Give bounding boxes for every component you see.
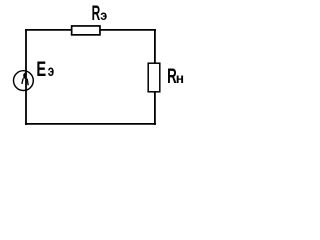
resistor R1 label "R" <box>92 2 101 25</box>
svg-text:н: н <box>176 70 184 86</box>
svg-text:э: э <box>100 8 107 24</box>
EMF source E1 label subscript "э" <box>48 62 55 79</box>
resistor R2 label "R" <box>167 64 177 88</box>
EMF source E1 arrow head <box>23 73 26 79</box>
EMF source E1 (Eэ) circle <box>14 71 34 91</box>
wire: top horizontal <box>25 29 156 31</box>
resistor R2 label subscript "н" <box>176 70 184 86</box>
svg-text:R: R <box>92 2 101 25</box>
svg-text:E: E <box>36 56 46 81</box>
wire: left vertical <box>25 29 27 125</box>
svg-text:э: э <box>48 62 55 79</box>
wire: bottom horizontal <box>25 123 156 125</box>
EMF source E1 arrow left barb <box>22 79 23 84</box>
resistor R1 (Rэ) body <box>72 26 100 35</box>
wire: right vertical <box>154 29 156 125</box>
resistor R1 label subscript "э" <box>100 8 107 24</box>
EMF source E1 arrow right barb <box>27 79 28 86</box>
resistor R2 (Rн) body <box>148 63 160 92</box>
EMF source E1 label "E" <box>36 56 46 81</box>
